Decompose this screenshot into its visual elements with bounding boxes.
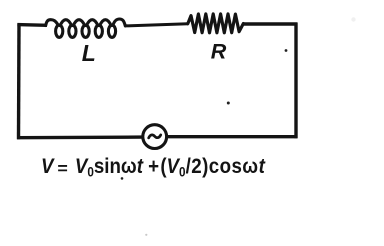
faint smudge top right: [351, 17, 355, 21]
svg-text:V=V0sinωt + (V0/2)cosωt: V=V0sinωt + (V0/2)cosωt: [41, 155, 266, 180]
speck dot below resistor: [227, 102, 230, 105]
speck dot right of resistor: [285, 49, 288, 52]
resistor R: [188, 14, 244, 33]
wire: top-middle segment between inductor and resistor: [125, 24, 188, 26]
wire: top-left segment from left corner to inductor: [17, 23, 47, 27]
faint speck bottom center: [145, 234, 147, 236]
svg-text:L: L: [82, 40, 96, 66]
svg-text:R: R: [211, 40, 227, 64]
wire: bottom-right segment from AC source to right corner: [167, 135, 297, 138]
inductor L: [46, 19, 126, 37]
wire: left vertical side: [17, 23, 21, 139]
AC source V1 (circle): [143, 125, 167, 149]
wire: bottom-left segment from corner to AC source: [17, 135, 143, 139]
wire: right vertical side: [294, 23, 297, 138]
wire: top-right segment from resistor to right corner: [243, 22, 298, 25]
speck dot below equation sin: [121, 177, 124, 180]
AC source tilde symbol: [149, 135, 161, 138]
